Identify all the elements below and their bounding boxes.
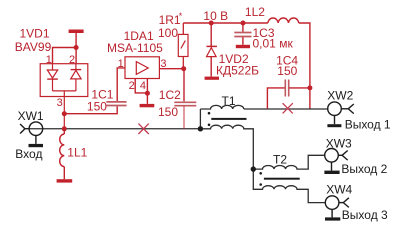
core T2 (264, 178, 300, 180)
svg-text:2: 2 (129, 80, 135, 92)
node: 1C4/1L2 junction (307, 85, 312, 90)
diode pair 1VD1 BAV99 (40, 64, 88, 129)
wire: 1C1 coupling from input node to pin 1 (64, 68, 125, 114)
svg-text:1VD1: 1VD1 (20, 26, 50, 40)
resistor R1 (1R1) (178, 23, 188, 69)
svg-text:*: * (179, 11, 183, 21)
wire: ground to 1VD1 pins 1,2 (53, 33, 77, 64)
svg-text:150: 150 (158, 105, 178, 119)
svg-text:MSA-1105: MSA-1105 (107, 41, 163, 55)
svg-text:150: 150 (87, 99, 107, 113)
connector XW1 (20, 122, 43, 144)
svg-text:4: 4 (140, 80, 146, 92)
transformer T1 (200, 105, 253, 169)
svg-text:T1: T1 (222, 94, 236, 108)
node: rail junction at 1VD2 (209, 21, 214, 26)
diode 1VD2 КД522Б (207, 23, 217, 77)
svg-text:КД522Б: КД522Б (216, 64, 259, 78)
svg-text:Выход 2: Выход 2 (341, 162, 387, 176)
svg-text:2: 2 (69, 54, 75, 66)
connector XW2 (328, 102, 354, 124)
connector XW3 (325, 149, 348, 171)
svg-text:Выход 3: Выход 3 (342, 208, 388, 222)
core T1 (211, 118, 246, 120)
ground (MSA) (140, 104, 155, 107)
node: T1 main junction (198, 126, 203, 131)
ground (1C3) (236, 45, 250, 48)
wire: +10V rail (183, 22, 268, 24)
svg-text:10 В: 10 В (203, 9, 228, 23)
node: rail junction at 1C3 (241, 21, 246, 26)
wire: T1 to XW2 (output 1 line) (244, 108, 329, 110)
svg-text:1L2: 1L2 (245, 5, 265, 19)
phase dot T1 top (208, 112, 211, 115)
svg-text:1C2: 1C2 (159, 88, 181, 102)
phase dot T2 bottom (259, 183, 262, 186)
ground (XW4) (325, 217, 340, 220)
svg-text:150: 150 (277, 64, 297, 78)
ground bar above 1VD1 (69, 30, 84, 34)
node: T2 junction (251, 166, 256, 171)
svg-text:1: 1 (118, 58, 124, 70)
svg-text:Выход 1: Выход 1 (345, 117, 391, 131)
svg-text:XW3: XW3 (326, 137, 352, 151)
inductor 1L1 (60, 129, 65, 179)
X cut mark on output 1 line (283, 103, 293, 113)
svg-text:XW4: XW4 (326, 183, 352, 197)
node: junction dot pins 1-2 of 1VD1 (74, 45, 79, 50)
svg-text:1: 1 (46, 54, 52, 66)
X cut mark on input line (138, 124, 148, 134)
phase dot T2 top (259, 172, 262, 175)
inductor 1L2 (268, 18, 299, 23)
svg-text:XW1: XW1 (18, 109, 44, 123)
amplifier IC 1DA1 MSA-1105 (125, 57, 159, 79)
connector XW4 (325, 196, 349, 218)
svg-text:XW2: XW2 (327, 88, 353, 102)
capacitor C3 (1C3) (234, 23, 251, 45)
ground (XW1) (29, 144, 44, 147)
ground (XW2) (327, 124, 341, 127)
svg-text:Вход: Вход (15, 147, 42, 161)
node: pin3/1R1/1C2 junction (181, 66, 186, 71)
svg-text:1L1: 1L1 (67, 146, 87, 160)
svg-text:BAV99: BAV99 (15, 40, 52, 54)
node: junction dot on main line (1VD1/1L1) (62, 126, 67, 131)
svg-text:3: 3 (57, 97, 63, 109)
capacitor 1C4 bridge (267, 80, 310, 109)
node: junction dot at 1VD1 pin3 / 1C1 branch (62, 111, 67, 116)
ground (1L1) (57, 179, 73, 182)
wire: main input line XW1 to T1 junction (29, 128, 200, 130)
ground (1VD2) (205, 77, 219, 80)
svg-text:T2: T2 (273, 152, 287, 166)
wire: pin 3 to node (159, 68, 184, 70)
capacitor 1C2 (174, 69, 196, 129)
node: junction pins 2-4 (145, 91, 150, 96)
phase dot T1 bottom (208, 124, 211, 127)
wire: 1L2 to output line (299, 23, 310, 109)
svg-text:0,01 мк: 0,01 мк (253, 36, 294, 50)
ground (XW3) (324, 171, 339, 174)
wire: pins 2,4 to ground (135, 79, 147, 104)
transformer T2 (253, 155, 325, 202)
capacitor 1C1 (106, 102, 126, 106)
svg-text:100: 100 (158, 26, 178, 40)
